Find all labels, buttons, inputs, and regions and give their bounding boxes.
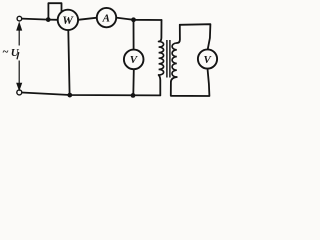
- svg-text:W: W: [62, 13, 74, 27]
- svg-text:A: A: [102, 12, 110, 24]
- svg-text:~: ~: [2, 46, 9, 58]
